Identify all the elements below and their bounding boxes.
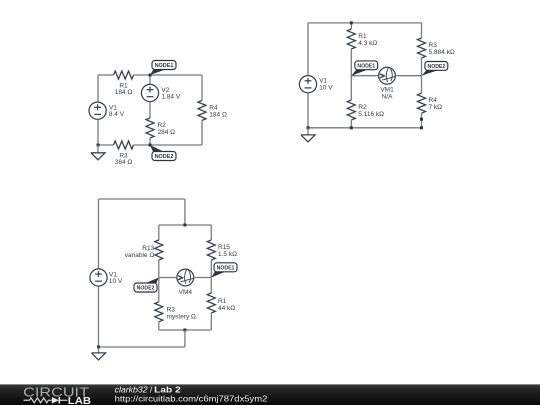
svg-text:10 V: 10 V — [319, 84, 333, 91]
svg-text:1.5 kΩ: 1.5 kΩ — [218, 251, 237, 258]
svg-text:R4: R4 — [209, 104, 218, 111]
svg-text:R1: R1 — [218, 298, 227, 305]
svg-text:N/A: N/A — [382, 93, 394, 100]
svg-text:R2: R2 — [358, 104, 367, 111]
svg-text:44 kΩ: 44 kΩ — [218, 305, 235, 312]
svg-text:184 Ω: 184 Ω — [115, 89, 133, 96]
svg-text:Lab 2: Lab 2 — [154, 386, 181, 395]
svg-text:8.4 V: 8.4 V — [109, 111, 125, 118]
svg-text:NODE2: NODE2 — [155, 154, 174, 160]
svg-text:5.884 kΩ: 5.884 kΩ — [429, 49, 455, 56]
svg-text:NODE2: NODE2 — [428, 64, 446, 70]
svg-text:clarkb32: clarkb32 — [115, 386, 148, 395]
svg-text:5.116 kΩ: 5.116 kΩ — [358, 111, 384, 118]
svg-text:R15: R15 — [218, 244, 230, 251]
svg-text:R1: R1 — [358, 33, 367, 40]
svg-text:R2: R2 — [158, 122, 167, 129]
svg-text:NODE1: NODE1 — [217, 266, 235, 272]
svg-text:NODE1: NODE1 — [155, 63, 174, 69]
svg-text:VM4: VM4 — [179, 289, 193, 296]
svg-text:NODE2: NODE2 — [137, 286, 155, 292]
svg-text:LAB: LAB — [68, 396, 92, 405]
svg-text:R3: R3 — [167, 306, 176, 313]
svg-text:NODE1: NODE1 — [357, 64, 375, 70]
svg-text:R13: R13 — [142, 245, 154, 252]
svg-text:variable Ω: variable Ω — [125, 252, 155, 259]
svg-text:284 Ω: 284 Ω — [158, 129, 176, 136]
svg-text:184 Ω: 184 Ω — [209, 111, 227, 118]
svg-text:384 Ω: 384 Ω — [115, 159, 133, 166]
svg-text:R4: R4 — [429, 97, 438, 104]
svg-text:7 kΩ: 7 kΩ — [429, 104, 443, 111]
svg-text:1.84 V: 1.84 V — [161, 94, 180, 101]
svg-text:mystery Ω: mystery Ω — [167, 313, 197, 320]
svg-text:http://circuitlab.com/c6mj787d: http://circuitlab.com/c6mj787dx5ym2 — [115, 395, 268, 404]
svg-text:10 V: 10 V — [109, 278, 123, 285]
svg-text:4.3 kΩ: 4.3 kΩ — [358, 40, 377, 47]
svg-text:R3: R3 — [429, 42, 438, 49]
